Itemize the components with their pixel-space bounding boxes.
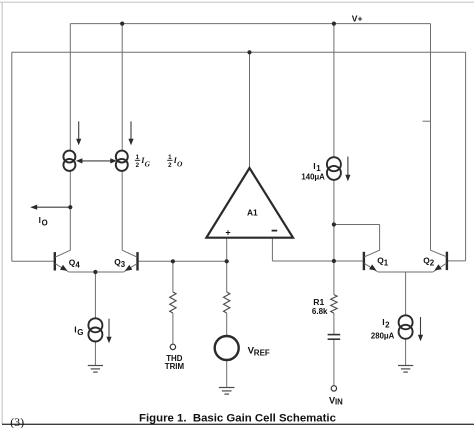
svg-text:G: G [145,160,151,169]
svg-text:Figure 1. Basic Gain Cell Sch: Figure 1. Basic Gain Cell Schematic [139,412,336,424]
svg-text:(3): (3) [10,415,24,428]
svg-text:2: 2 [430,258,435,267]
svg-text:I: I [39,216,41,225]
svg-text:2: 2 [136,162,140,169]
svg-text:280μA: 280μA [371,331,395,340]
svg-text:R1: R1 [313,297,324,307]
svg-text:3: 3 [121,260,126,269]
svg-text:140μA: 140μA [301,172,325,181]
svg-text:2: 2 [385,320,390,329]
svg-text:G: G [77,328,83,337]
svg-text:A1: A1 [247,208,258,218]
svg-text:REF: REF [254,349,270,358]
svg-text:O: O [42,219,48,228]
svg-text:+: + [225,227,230,237]
svg-text:O: O [177,160,183,169]
svg-text:TRIM: TRIM [165,362,185,371]
svg-text:2: 2 [168,162,172,169]
svg-text:6.8k: 6.8k [312,307,328,316]
svg-text:V+: V+ [352,14,363,24]
svg-text:4: 4 [75,261,80,270]
svg-text:IN: IN [335,398,343,407]
svg-text:1: 1 [384,259,389,268]
